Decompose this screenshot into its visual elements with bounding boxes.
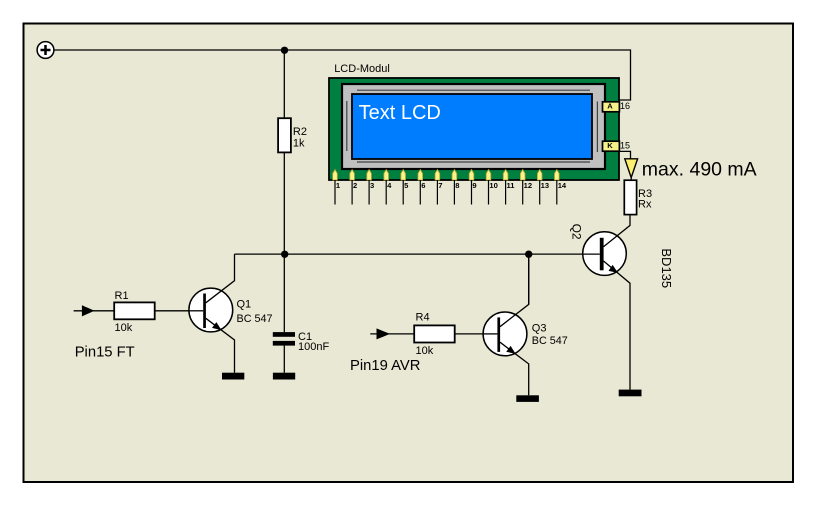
svg-text:Text LCD: Text LCD [359,102,441,124]
svg-text:16: 16 [620,101,630,111]
LCD pin 10 [486,170,498,205]
wire top supply rail [54,50,631,100]
LCD pin 1 [333,170,341,205]
svg-text:K: K [607,141,613,150]
resistor R3 Rx [624,180,636,214]
svg-text:9: 9 [472,181,476,190]
resistor R4 [414,325,455,342]
svg-text:BC 547: BC 547 [532,335,568,347]
svg-text:Pin19 AVR: Pin19 AVR [350,358,420,374]
svg-text:R4: R4 [416,311,430,323]
svg-text:2: 2 [353,181,357,190]
transistor Q2 BD135 [570,215,675,390]
LCD pin 14 [555,170,567,205]
LCD screen [352,94,592,159]
ground Q3 [516,395,539,402]
junction top rail / R2 [281,47,288,54]
svg-text:1k: 1k [293,138,305,150]
svg-text:Q2: Q2 [570,224,584,240]
LCD pin 2 [350,170,357,205]
LCD pin 12 [520,170,532,205]
svg-text:max. 490 mA: max. 490 mA [642,159,757,181]
bezel shadow lines [357,89,590,91]
junction mid rail / Q3 collector [525,251,532,258]
resistor R1 [114,302,155,319]
capacitor C1 [273,254,330,373]
svg-text:10: 10 [489,181,497,190]
svg-text:BD135: BD135 [659,248,674,288]
LCD module PCB [329,78,619,180]
LCD pin 11 [503,170,515,205]
transistor Q1 BC547 [189,254,273,373]
wire Q3 collector to mid rail [528,254,530,304]
LCD bezel [342,84,605,169]
LCD pin 8 [452,170,459,205]
svg-text:10k: 10k [115,322,133,334]
input arrow Pin15 FT [74,310,115,312]
svg-text:7: 7 [438,181,442,190]
svg-text:11: 11 [507,181,516,190]
LCD pin 7 [435,170,442,205]
wire R2 top [283,50,285,118]
LCD pin 6 [418,170,425,205]
LCD pin 13 [537,170,549,205]
svg-text:R1: R1 [115,290,129,302]
LCD pin 9 [469,170,476,205]
svg-text:3: 3 [370,181,374,190]
svg-text:Pin15 FT: Pin15 FT [75,344,135,360]
input arrow Pin19 AVR [370,333,415,335]
wire pad K to LED [619,151,631,159]
svg-text:12: 12 [524,181,532,190]
wire mid rail [235,253,600,255]
ground Q2 [619,390,642,397]
svg-text:13: 13 [541,181,549,190]
wire R1 to Q1 base [155,310,204,312]
wire R4 to Q3 base [455,333,498,335]
svg-text:Q1: Q1 [237,299,252,311]
resistor R2 [278,118,291,152]
svg-text:10k: 10k [416,345,434,357]
svg-text:A: A [607,102,613,111]
svg-text:8: 8 [455,181,459,190]
svg-text:LCD-Modul: LCD-Modul [334,63,390,75]
ground Q1 [222,373,244,380]
svg-text:Q3: Q3 [532,323,547,335]
svg-text:R2: R2 [293,126,307,138]
LCD pin 5 [401,170,409,205]
transistor Q3 BC547 [483,254,568,395]
LED backlight diode [625,159,638,178]
svg-text:Rx: Rx [638,199,652,211]
svg-text:6: 6 [421,181,425,190]
svg-text:BC 547: BC 547 [237,313,273,325]
pad K (pin 15) [603,141,620,151]
power supply plus terminal [37,42,54,59]
LCD pin 3 [367,170,374,205]
wire R2 bottom to mid rail [283,153,285,255]
LCD pin 4 [384,170,392,205]
ground C1 [273,373,295,380]
svg-text:14: 14 [558,181,567,190]
svg-text:15: 15 [620,141,630,151]
junction mid rail / R2-C1 [281,251,288,258]
svg-text:100nF: 100nF [298,341,329,353]
pad A (pin 16) [603,102,620,112]
